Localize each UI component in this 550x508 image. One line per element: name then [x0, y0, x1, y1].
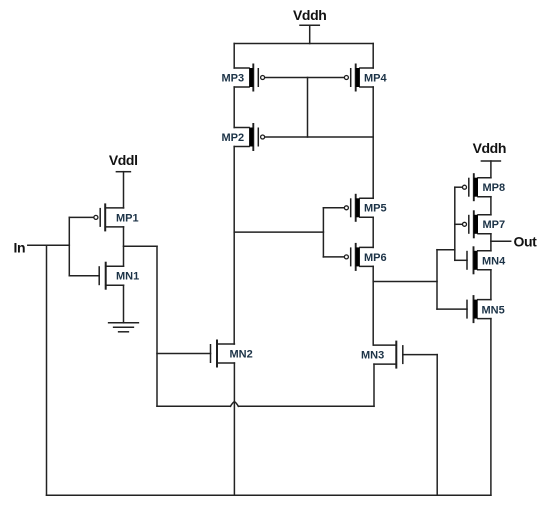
svg-text:MP5: MP5 [364, 203, 387, 215]
svg-text:MN2: MN2 [230, 349, 253, 361]
svg-text:MP6: MP6 [364, 252, 387, 264]
svg-text:MP4: MP4 [364, 73, 388, 85]
svg-text:Vddh: Vddh [293, 7, 326, 23]
svg-text:MP3: MP3 [222, 73, 245, 85]
svg-text:MP7: MP7 [483, 219, 506, 231]
svg-text:Vddh: Vddh [473, 140, 506, 156]
svg-text:MN5: MN5 [482, 305, 505, 317]
svg-text:Out: Out [514, 234, 538, 250]
svg-text:Vddl: Vddl [109, 152, 138, 168]
svg-text:MN3: MN3 [361, 350, 384, 362]
svg-text:MP1: MP1 [116, 212, 139, 224]
svg-text:MP2: MP2 [222, 132, 245, 144]
svg-text:MP8: MP8 [483, 182, 506, 194]
svg-text:MN1: MN1 [116, 271, 139, 283]
svg-text:In: In [14, 239, 26, 255]
svg-text:MN4: MN4 [482, 255, 506, 267]
